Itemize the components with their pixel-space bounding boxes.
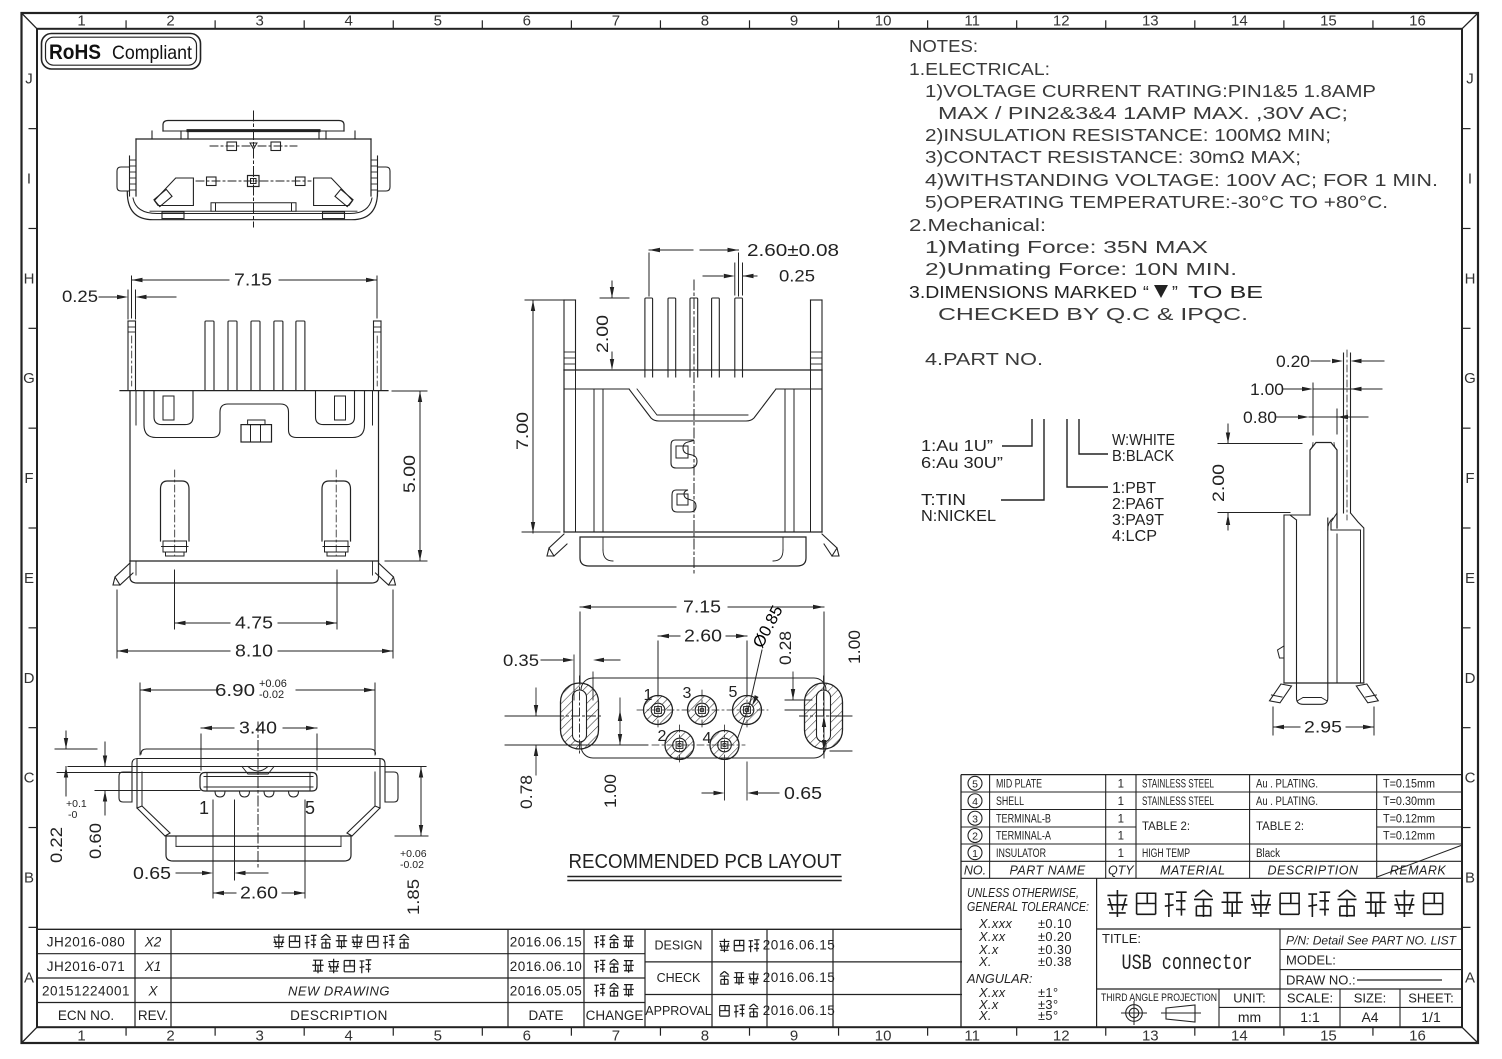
- svg-text:2: 2: [972, 831, 978, 843]
- svg-text:1: 1: [1118, 848, 1124, 860]
- svg-text:T=0.30mm: T=0.30mm: [1383, 794, 1435, 808]
- svg-text:15: 15: [1320, 13, 1337, 30]
- svg-text:B: B: [24, 869, 34, 886]
- svg-text:G: G: [1464, 370, 1476, 387]
- svg-text:1:Au 1U”: 1:Au 1U”: [921, 438, 993, 455]
- svg-text:6: 6: [523, 13, 531, 30]
- svg-text:2.60±0.08: 2.60±0.08: [747, 240, 839, 260]
- svg-text:2016.06.15: 2016.06.15: [763, 1003, 836, 1018]
- svg-text:G: G: [23, 370, 35, 387]
- svg-text:Au . PLATING.: Au . PLATING.: [1256, 779, 1318, 791]
- svg-text:MODEL:: MODEL:: [1286, 953, 1336, 968]
- svg-text:3)CONTACT RESISTANCE: 30mΩ MAX: 3)CONTACT RESISTANCE: 30mΩ MAX;: [925, 147, 1301, 167]
- svg-text:“: “: [1143, 282, 1149, 302]
- svg-text:1)VOLTAGE CURRENT RATING:PIN1&: 1)VOLTAGE CURRENT RATING:PIN1&5 1.8AMP: [925, 81, 1376, 101]
- svg-text:T:TIN: T:TIN: [921, 492, 966, 509]
- svg-text:0.22: 0.22: [47, 827, 66, 863]
- svg-text:UNLESS OTHERWISE,: UNLESS OTHERWISE,: [967, 885, 1079, 900]
- svg-text:4.PART NO.: 4.PART NO.: [925, 349, 1043, 369]
- svg-text:0.25: 0.25: [62, 287, 98, 306]
- svg-text:1: 1: [77, 1028, 85, 1045]
- svg-text:T=0.12mm: T=0.12mm: [1383, 811, 1435, 825]
- svg-text:A4: A4: [1361, 1009, 1378, 1025]
- svg-text:2.60: 2.60: [240, 883, 278, 903]
- svg-text:16: 16: [1409, 13, 1426, 30]
- svg-text:2:PA6T: 2:PA6T: [1112, 496, 1165, 513]
- svg-text:X: X: [147, 983, 158, 998]
- svg-text:4: 4: [345, 13, 353, 30]
- svg-text:X2: X2: [144, 935, 162, 950]
- svg-text:REMARK: REMARK: [1390, 863, 1447, 877]
- svg-text:H: H: [1465, 270, 1476, 287]
- svg-text:TERMINAL-A: TERMINAL-A: [996, 831, 1051, 843]
- svg-text:DATE: DATE: [528, 1008, 563, 1023]
- svg-text:2: 2: [658, 728, 667, 745]
- svg-text:E: E: [24, 570, 34, 587]
- svg-text:X1: X1: [144, 959, 162, 974]
- svg-text:MID PLATE: MID PLATE: [996, 779, 1042, 791]
- svg-text:7.00: 7.00: [513, 412, 532, 450]
- svg-text:J: J: [25, 71, 33, 88]
- svg-text:5: 5: [729, 684, 738, 701]
- svg-text:2.95: 2.95: [1304, 718, 1342, 737]
- svg-text:3: 3: [255, 1028, 263, 1045]
- svg-text:7: 7: [612, 13, 620, 30]
- svg-text:10: 10: [875, 13, 892, 30]
- svg-text:12: 12: [1053, 1028, 1070, 1045]
- svg-text:1: 1: [972, 848, 978, 860]
- svg-text:PART NAME: PART NAME: [1009, 863, 1085, 877]
- svg-text:E: E: [1465, 570, 1475, 587]
- svg-text:8: 8: [701, 13, 709, 30]
- svg-text:5: 5: [972, 779, 978, 791]
- svg-text:6:Au 30U”: 6:Au 30U”: [921, 455, 1003, 472]
- svg-text:2.00: 2.00: [1209, 464, 1228, 502]
- svg-text:X.: X.: [978, 954, 992, 969]
- svg-text:TITLE:: TITLE:: [1102, 931, 1141, 946]
- svg-text:4: 4: [345, 1028, 353, 1045]
- svg-text:1: 1: [1118, 779, 1124, 791]
- svg-text:2016.06.10: 2016.06.10: [510, 959, 583, 974]
- svg-text:10: 10: [875, 1028, 892, 1045]
- svg-text:NEW DRAWING: NEW DRAWING: [288, 983, 390, 998]
- svg-text:1.00: 1.00: [1250, 381, 1284, 399]
- svg-text:0.60: 0.60: [86, 823, 105, 859]
- svg-text:2: 2: [166, 13, 174, 30]
- svg-text:X.: X.: [978, 1008, 992, 1023]
- svg-text:0.35: 0.35: [503, 651, 539, 670]
- svg-text:1: 1: [1118, 831, 1124, 843]
- svg-text:INSULATOR: INSULATOR: [996, 848, 1046, 860]
- svg-text:REV.: REV.: [138, 1008, 168, 1023]
- svg-text:MAX / PIN2&3&4 1AMP MAX. ,30V: MAX / PIN2&3&4 1AMP MAX. ,30V AC;: [938, 103, 1348, 123]
- svg-text:7.15: 7.15: [683, 597, 721, 617]
- svg-text:6.90: 6.90: [215, 680, 255, 700]
- svg-text:HIGH TEMP: HIGH TEMP: [1142, 848, 1190, 860]
- svg-text:STAINLESS STEEL: STAINLESS STEEL: [1142, 779, 1214, 791]
- svg-text:I: I: [27, 171, 31, 188]
- svg-text:-0.02: -0.02: [400, 859, 424, 871]
- svg-text:mm: mm: [1238, 1009, 1261, 1025]
- svg-text:CHECKED BY Q.C & IPQC.: CHECKED BY Q.C & IPQC.: [938, 304, 1248, 324]
- svg-text:1.00: 1.00: [846, 630, 864, 664]
- svg-text:CHANGE: CHANGE: [586, 1008, 644, 1023]
- svg-text:13: 13: [1142, 13, 1159, 30]
- svg-text:A: A: [24, 969, 34, 986]
- svg-text:4: 4: [972, 796, 978, 808]
- svg-text:I: I: [1468, 171, 1472, 188]
- svg-text:11: 11: [964, 1028, 980, 1045]
- svg-text:±0.38: ±0.38: [1038, 954, 1072, 969]
- svg-text:16: 16: [1409, 1028, 1426, 1045]
- svg-text:ECN NO.: ECN NO.: [58, 1008, 114, 1023]
- svg-text:THIRD ANGLE PROJECTION: THIRD ANGLE PROJECTION: [1101, 992, 1217, 1004]
- svg-text:C: C: [24, 770, 35, 787]
- svg-text:CHECK: CHECK: [657, 971, 701, 985]
- svg-text:5)OPERATING TEMPERATURE:-30°C: 5)OPERATING TEMPERATURE:-30°C TO +80°C.: [925, 192, 1388, 212]
- svg-text:USB connector: USB connector: [1122, 951, 1253, 976]
- svg-text:8: 8: [701, 1028, 709, 1045]
- svg-text:4.75: 4.75: [235, 613, 273, 633]
- svg-text:5.00: 5.00: [400, 455, 419, 493]
- svg-text:9: 9: [790, 13, 798, 30]
- svg-text:1:1: 1:1: [1300, 1009, 1320, 1025]
- svg-text:A: A: [1465, 969, 1475, 986]
- svg-text:9: 9: [790, 1028, 798, 1045]
- svg-text:0.65: 0.65: [133, 863, 171, 883]
- svg-text:0.80: 0.80: [1243, 409, 1277, 427]
- svg-text:UNIT:: UNIT:: [1233, 991, 1266, 1006]
- svg-text:4: 4: [703, 730, 712, 747]
- svg-text:2.00: 2.00: [593, 315, 612, 353]
- svg-text:5: 5: [434, 1028, 442, 1045]
- svg-text:1.ELECTRICAL:: 1.ELECTRICAL:: [909, 59, 1050, 79]
- svg-text:Au . PLATING.: Au . PLATING.: [1256, 796, 1318, 808]
- svg-text:”: ”: [1172, 282, 1178, 302]
- svg-text:2016.06.15: 2016.06.15: [510, 935, 583, 950]
- svg-text:2016.06.15: 2016.06.15: [763, 938, 836, 953]
- svg-text:0.65: 0.65: [784, 783, 822, 803]
- svg-text:ANGULAR:: ANGULAR:: [966, 971, 1033, 986]
- svg-text:1)Mating Force: 35N MAX: 1)Mating Force: 35N MAX: [925, 237, 1208, 257]
- svg-text:20151224001: 20151224001: [42, 983, 130, 998]
- svg-text:Black: Black: [1256, 848, 1280, 860]
- svg-text:-0: -0: [68, 809, 77, 821]
- svg-text:1.85: 1.85: [404, 879, 423, 915]
- svg-text:2016.06.15: 2016.06.15: [763, 970, 836, 985]
- svg-text:JH2016-080: JH2016-080: [47, 935, 126, 950]
- svg-text:3.DIMENSIONS MARKED: 3.DIMENSIONS MARKED: [909, 282, 1137, 302]
- svg-text:APPROVAL: APPROVAL: [645, 1004, 712, 1018]
- svg-text:2.Mechanical:: 2.Mechanical:: [909, 215, 1046, 235]
- svg-text:TABLE 2:: TABLE 2:: [1256, 821, 1304, 833]
- svg-text:B:BLACK: B:BLACK: [1112, 448, 1175, 465]
- svg-text:13: 13: [1142, 1028, 1159, 1045]
- svg-text:7.15: 7.15: [234, 270, 272, 290]
- svg-text:7: 7: [612, 1028, 620, 1045]
- svg-text:2016.05.05: 2016.05.05: [510, 983, 583, 998]
- svg-text:B: B: [1465, 869, 1475, 886]
- svg-text:12: 12: [1053, 13, 1070, 30]
- svg-text:T=0.15mm: T=0.15mm: [1383, 777, 1435, 791]
- svg-text:3:PA9T: 3:PA9T: [1112, 512, 1165, 529]
- svg-text:SCALE:: SCALE:: [1287, 991, 1333, 1006]
- svg-text:P/N: Detail See PART NO. LIST: P/N: Detail See PART NO. LIST: [1286, 934, 1457, 948]
- svg-text:RoHS: RoHS: [49, 41, 101, 64]
- svg-text:DRAW NO.:: DRAW NO.:: [1286, 973, 1356, 988]
- svg-text:NOTES:: NOTES:: [909, 36, 978, 56]
- svg-text:GENERAL TOLERANCE:: GENERAL TOLERANCE:: [967, 899, 1089, 914]
- svg-text:F: F: [24, 470, 33, 487]
- svg-text:0.28: 0.28: [777, 631, 795, 665]
- svg-text:DESIGN: DESIGN: [655, 939, 703, 953]
- svg-text:1: 1: [644, 687, 653, 704]
- svg-text:14: 14: [1231, 13, 1248, 30]
- svg-text:15: 15: [1320, 1028, 1337, 1045]
- svg-text:MATERIAL: MATERIAL: [1160, 863, 1226, 877]
- svg-text:TO BE: TO BE: [1188, 282, 1263, 302]
- svg-text:1: 1: [199, 798, 209, 818]
- svg-text:1.00: 1.00: [602, 774, 620, 808]
- svg-text:JH2016-071: JH2016-071: [47, 959, 126, 974]
- svg-text:N:NICKEL: N:NICKEL: [921, 508, 996, 525]
- svg-text:TERMINAL-B: TERMINAL-B: [996, 813, 1051, 825]
- svg-text:6: 6: [523, 1028, 531, 1045]
- svg-text:TABLE 2:: TABLE 2:: [1142, 821, 1190, 833]
- svg-text:1/1: 1/1: [1421, 1009, 1441, 1025]
- svg-text:1:PBT: 1:PBT: [1112, 480, 1157, 497]
- svg-text:11: 11: [964, 13, 980, 30]
- svg-text:2)Unmating Force: 10N MIN.: 2)Unmating Force: 10N MIN.: [925, 259, 1237, 279]
- svg-text:H: H: [24, 270, 35, 287]
- svg-text:1: 1: [1118, 813, 1124, 825]
- svg-text:T=0.12mm: T=0.12mm: [1383, 829, 1435, 843]
- svg-text:Compliant: Compliant: [112, 42, 193, 64]
- svg-text:3: 3: [255, 13, 263, 30]
- svg-text:2: 2: [166, 1028, 174, 1045]
- svg-text:SHELL: SHELL: [996, 796, 1024, 808]
- svg-text:RECOMMENDED PCB LAYOUT: RECOMMENDED PCB LAYOUT: [569, 851, 842, 873]
- svg-text:C: C: [1465, 770, 1476, 787]
- svg-text:SIZE:: SIZE:: [1354, 991, 1387, 1006]
- svg-text:0.20: 0.20: [1276, 353, 1310, 371]
- svg-text:2)INSULATION RESISTANCE: 100MΩ: 2)INSULATION RESISTANCE: 100MΩ MIN;: [925, 125, 1331, 145]
- svg-text:4:LCP: 4:LCP: [1112, 528, 1157, 545]
- svg-text:2.60: 2.60: [684, 626, 722, 646]
- svg-text:0.78: 0.78: [518, 775, 536, 809]
- svg-text:3: 3: [683, 685, 692, 702]
- svg-text:1: 1: [1118, 796, 1124, 808]
- svg-text:1: 1: [77, 13, 85, 30]
- svg-text:D: D: [1465, 670, 1476, 687]
- svg-text:W:WHITE: W:WHITE: [1112, 432, 1175, 449]
- svg-text:±5°: ±5°: [1038, 1008, 1058, 1023]
- svg-text:0.25: 0.25: [779, 267, 815, 286]
- svg-text:SHEET:: SHEET:: [1408, 991, 1454, 1006]
- svg-text:STAINLESS STEEL: STAINLESS STEEL: [1142, 796, 1214, 808]
- svg-text:DESCRIPTION: DESCRIPTION: [290, 1008, 388, 1023]
- svg-text:-0.02: -0.02: [259, 689, 284, 701]
- svg-text:NO.: NO.: [964, 863, 986, 877]
- svg-text:D: D: [24, 670, 35, 687]
- svg-text:DESCRIPTION: DESCRIPTION: [1268, 863, 1359, 877]
- svg-text:14: 14: [1231, 1028, 1248, 1045]
- svg-text:J: J: [1466, 71, 1474, 88]
- svg-text:4)WITHSTANDING VOLTAGE: 100V A: 4)WITHSTANDING VOLTAGE: 100V AC; FOR 1 M…: [925, 170, 1438, 190]
- svg-text:5: 5: [305, 798, 315, 818]
- svg-text:5: 5: [434, 13, 442, 30]
- svg-text:QTY: QTY: [1108, 863, 1135, 877]
- svg-text:F: F: [1465, 470, 1474, 487]
- svg-text:3: 3: [972, 813, 978, 825]
- svg-text:8.10: 8.10: [235, 641, 273, 661]
